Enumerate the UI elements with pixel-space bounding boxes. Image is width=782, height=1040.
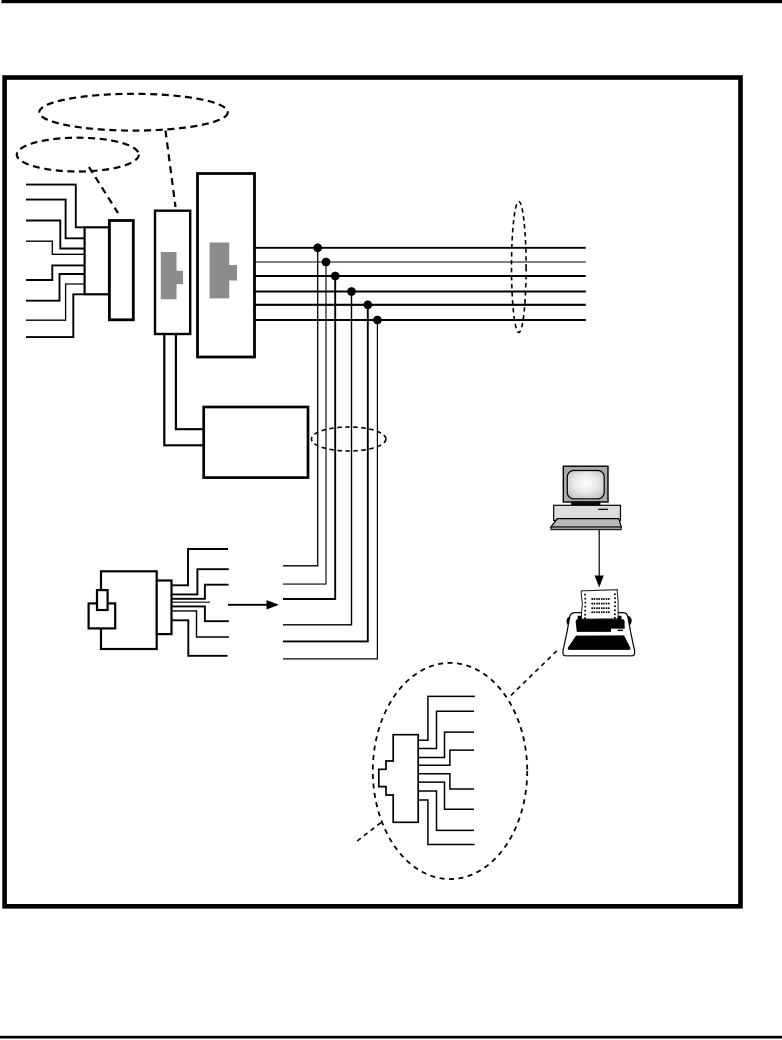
plug wire U1 [418, 696, 475, 740]
tap wire T2 [283, 262, 326, 584]
connector J1 inner block [85, 227, 109, 294]
cable bundle ellipse (dashed, vertical, over bus) [512, 202, 527, 333]
wire from J2 to box (left) [164, 334, 204, 445]
fan wire F7 [172, 620, 228, 656]
arrow to taps [228, 604, 269, 606]
tap wire T1 [283, 248, 318, 566]
plug wire U2 [418, 711, 474, 748]
junction dot D2 [322, 258, 331, 267]
connector J2 body [155, 211, 190, 334]
bus line L4 [255, 291, 586, 293]
bus line L5 [255, 304, 586, 306]
control box [204, 407, 308, 478]
plug P1 face [157, 581, 172, 635]
wire W5 [26, 265, 85, 280]
page footer rule [0, 1036, 782, 1039]
arrow head [267, 600, 280, 609]
fan wire F2 [172, 569, 229, 594]
computer base unit [554, 505, 621, 520]
junction dot D3 [331, 272, 340, 281]
base unit slot [598, 508, 608, 510]
bus line L1 [255, 247, 586, 249]
paper perforation left [584, 594, 586, 619]
plug wire U6 [418, 782, 474, 809]
callout ellipse E1 (large, dashed) [39, 94, 228, 131]
plug wire U4 [418, 750, 474, 765]
keyboard front strip [551, 527, 621, 530]
paper text rows [591, 598, 609, 613]
wire W7 [26, 284, 85, 320]
junction dot D5 [363, 300, 372, 309]
plug P1 body [101, 571, 157, 649]
connector J2 gray insert [161, 252, 183, 299]
plug P1 small tab [97, 590, 108, 610]
paper entry nub right [618, 616, 622, 620]
junction dot D4 [347, 287, 356, 296]
figure outer frame [5, 78, 741, 907]
arrow head to printer [595, 576, 604, 588]
computer neck [571, 501, 600, 505]
junction dot D1 [313, 243, 322, 252]
bus line L2 [255, 261, 586, 263]
wire W8 [26, 294, 85, 337]
plug P1 side tab [89, 603, 116, 628]
fan wire F4 [172, 601, 211, 603]
printer platen band [576, 619, 625, 632]
plug wire U5 [418, 774, 474, 789]
paper entry nub left [578, 616, 582, 620]
fan wire F1 [172, 549, 229, 585]
wire W4 [26, 241, 85, 254]
plug wire U7 [418, 791, 474, 830]
printer left ear [567, 616, 575, 626]
fan wire F3 [172, 585, 229, 599]
plug wire U3 [418, 732, 474, 757]
platen slot [611, 629, 623, 632]
leader tick at E3 lower-left [357, 823, 381, 842]
tap wire T4 [283, 292, 352, 625]
connector J1 outer block [109, 221, 133, 320]
bus line L6 [255, 319, 586, 321]
callout ellipse E2 (small, dashed) [17, 138, 139, 172]
computer screen [567, 471, 604, 499]
wire W1 (left bundle) [26, 185, 85, 228]
junction dot D6 [373, 316, 382, 325]
cable bundle ellipse (dashed, over tap wires) [312, 427, 386, 451]
bus line L3 [255, 275, 586, 277]
computer monitor [563, 466, 608, 502]
leader line from E2 to connector J1 [89, 167, 118, 213]
page top header bar [2, 0, 782, 3]
arrow computer to printer [598, 530, 600, 577]
connector J3 body (large) [198, 174, 255, 358]
leader line from E1 to connector J2 [166, 131, 176, 208]
wire W6 [26, 274, 85, 301]
printer front band [568, 636, 629, 649]
detail ellipse E3 (large, dashed) [373, 663, 527, 879]
printer right ear [624, 616, 632, 626]
printer paper [581, 590, 618, 620]
computer keyboard [551, 519, 622, 527]
printer body [563, 613, 635, 656]
wire W2 [26, 200, 85, 239]
tap wire T6 [283, 320, 377, 659]
connector J3 gray insert [210, 243, 237, 299]
plug wire U8 [418, 800, 474, 845]
platen slot dash [618, 630, 623, 632]
wire W3 [26, 221, 85, 249]
wire from J2 to box (right) [176, 334, 204, 429]
fan wire F6 [172, 611, 230, 637]
fan wire F5 [172, 606, 229, 621]
tap wire T5 [283, 305, 368, 642]
tap wire T3 [283, 276, 335, 599]
modular plug P2 outline [379, 735, 418, 823]
leader line printer to ellipse E3 [509, 651, 557, 698]
paper perforation right [614, 593, 616, 618]
